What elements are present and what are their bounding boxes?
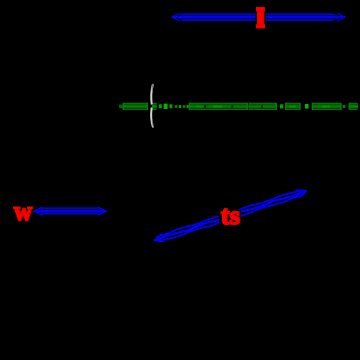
svg-text:ts: ts (220, 200, 239, 230)
svg-text:W: W (13, 205, 32, 225)
